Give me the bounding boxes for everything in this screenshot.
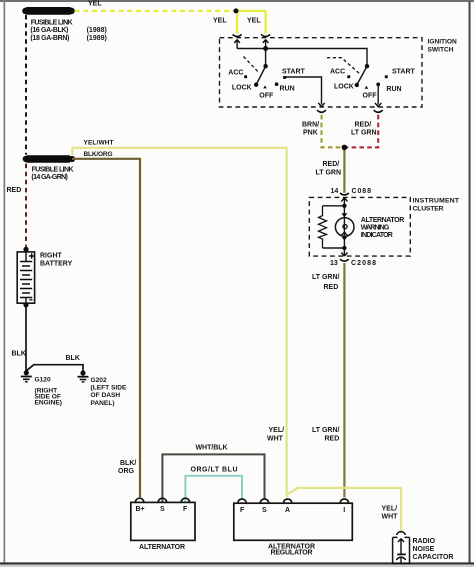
fusible link FL2 (14 GA-GRN) (23, 155, 75, 163)
label INSTRUMENT CLUSTER (413, 197, 460, 212)
svg-text:LT GRN: LT GRN (316, 169, 342, 176)
wire bus inside ignition switch (237, 49, 367, 67)
svg-text:G202: G202 (91, 377, 107, 384)
node yellow junction (234, 8, 239, 13)
label RED/LT GRN (red) (351, 121, 377, 136)
node BRN/PNK + RED/LT GRN junction (342, 145, 348, 151)
label BLK/ORG (near B+) (118, 460, 136, 475)
svg-text:C2088: C2088 (351, 260, 376, 267)
svg-text:LOCK: LOCK (334, 83, 354, 90)
switch SW1 left (wiper + contacts) (244, 57, 287, 89)
svg-text:ACC: ACC (228, 69, 243, 76)
svg-text:CLUSTER: CLUSTER (413, 205, 444, 212)
wire resistor bottom (323, 247, 345, 249)
connector arrow into cluster (341, 198, 347, 206)
ground G120 (21, 370, 32, 382)
label ALTERNATOR WARNING INDICATOR (361, 217, 405, 239)
connector 13 C2088 (330, 259, 376, 267)
label RIGHT BATTERY (40, 253, 73, 268)
label FUSIBLE LINK 1 (30, 20, 106, 42)
svg-text:FUSIBLE LINK: FUSIBLE LINK (32, 167, 74, 174)
svg-text:INDICATOR: INDICATOR (361, 232, 393, 239)
svg-text:F: F (183, 506, 188, 513)
svg-text:LT GRN: LT GRN (351, 130, 377, 137)
label G202 (LEFT SIDE OF DASH PANEL) (91, 377, 128, 407)
resistor (cluster shunt) (319, 206, 327, 248)
label G120 (RIGHT SIDE OF ENGINE) (35, 377, 62, 407)
connector exit left (BRN/PNK) (317, 103, 326, 112)
indicator lamp (alternator warning) (335, 206, 354, 248)
label RADIO NOISE CAPACITOR (413, 538, 454, 561)
wire ORG/LT BLU alternator F to regulator F (185, 476, 242, 502)
svg-text:INSTRUMENT: INSTRUMENT (413, 197, 460, 204)
svg-text:YEL: YEL (247, 18, 261, 25)
svg-text:RED: RED (7, 187, 22, 194)
fusible link FL1 (16 GA-BLK / 18 GA-BRN) (22, 7, 75, 15)
svg-text:BLK: BLK (12, 350, 26, 357)
labels SW1 positions (228, 69, 305, 100)
wire SW2 RUN contact to exit (377, 84, 379, 104)
frame bottom border (0, 562, 474, 564)
svg-text:START: START (392, 68, 416, 75)
connector arrow out of cluster (341, 248, 347, 256)
node battery - terminal (23, 302, 28, 307)
svg-text:NOISE: NOISE (413, 546, 435, 553)
svg-text:(LEFT SIDE: (LEFT SIDE (91, 385, 128, 392)
svg-text:LT GRN/: LT GRN/ (312, 427, 340, 434)
svg-text:RED/: RED/ (323, 161, 340, 168)
node cluster bottom junction (342, 246, 346, 250)
wire SW1 START contact to exit (286, 77, 322, 105)
svg-text:(18 GA-BRN): (18 GA-BRN) (30, 35, 69, 42)
svg-text:WHT/BLK: WHT/BLK (196, 445, 228, 452)
svg-text:(1989): (1989) (87, 35, 107, 42)
wire WHT/BLK alternator S to regulator S (162, 454, 264, 501)
svg-text:B+: B+ (136, 506, 145, 513)
wire BLK dashed (FL1 to FL2) (25, 15, 27, 155)
svg-text:RADIO: RADIO (413, 538, 436, 545)
wire left feed to wiper (265, 49, 267, 67)
label LT GRN/RED (upper) (312, 274, 340, 291)
labels SW2 positions (330, 68, 416, 99)
svg-text:ENGINE): ENGINE) (35, 400, 62, 407)
svg-text:13: 13 (330, 260, 338, 267)
svg-text:PANEL): PANEL) (91, 400, 115, 407)
svg-text:FUSIBLE LINK: FUSIBLE LINK (31, 20, 73, 27)
wire BLK battery to G120 (25, 305, 27, 371)
svg-text:RED: RED (325, 435, 340, 442)
svg-text:I: I (343, 507, 345, 514)
wire RED/LT GRN solid to cluster (343, 147, 345, 192)
svg-text:BRN/: BRN/ (302, 121, 319, 128)
connector exit right (RED/LT GRN) (374, 103, 383, 112)
wire YEL/WHT branch to radio capacitor (287, 488, 401, 532)
svg-text:C088: C088 (352, 188, 372, 195)
svg-text:(16 GA-BLK): (16 GA-BLK) (30, 27, 68, 34)
svg-text:ALTERNATOR: ALTERNATOR (139, 544, 185, 551)
svg-text:OFF: OFF (259, 93, 274, 100)
wire RED/LT GRN dashed (346, 115, 378, 148)
wire to resistor top (323, 205, 345, 207)
frame left border (4, 0, 6, 565)
svg-text:WARNING: WARNING (361, 224, 390, 231)
svg-text:(1988): (1988) (87, 27, 107, 34)
node bus junction (263, 46, 268, 51)
svg-text:YEL: YEL (88, 1, 102, 8)
svg-text:ORG/LT BLU: ORG/LT BLU (191, 467, 238, 474)
svg-text:BATTERY: BATTERY (40, 261, 73, 268)
wire RED dashed (FL2 to battery) (25, 164, 27, 247)
wire LT GRN/RED to regulator I (343, 263, 345, 497)
battery RIGHT BATTERY (17, 252, 34, 303)
svg-text:CAPACITOR: CAPACITOR (413, 554, 454, 561)
label YEL/WHT (capacitor feed) (382, 505, 399, 520)
connector entry right (ignition) (261, 34, 270, 48)
svg-text:WHT: WHT (267, 435, 284, 442)
svg-text:YEL/: YEL/ (269, 427, 285, 434)
frame top border (0, 0, 474, 2)
ground G202 (78, 370, 89, 382)
svg-text:S: S (160, 506, 165, 513)
svg-text:RIGHT: RIGHT (40, 253, 63, 260)
svg-text:OFF: OFF (363, 93, 378, 100)
radio noise capacitor (393, 532, 410, 564)
label RED/LT GRN (black) (316, 161, 342, 176)
svg-text:YEL/WHT: YEL/WHT (84, 140, 114, 147)
svg-text:BLK/ORG: BLK/ORG (84, 151, 113, 158)
wire BRN/PNK dashed (322, 115, 344, 148)
frame right border (469, 2, 471, 565)
svg-text:OF DASH: OF DASH (91, 392, 121, 399)
svg-text:WHT: WHT (382, 514, 399, 521)
svg-text:LOCK: LOCK (232, 85, 252, 92)
labels alternator pins B+ S F (136, 506, 189, 513)
svg-text:RED/: RED/ (355, 121, 372, 128)
wire BLK/ORG to B+ (72, 159, 140, 498)
svg-text:G120: G120 (35, 377, 51, 384)
wire YEL solid into ignition switch (236, 11, 266, 34)
svg-text:(14 GA-GRN): (14 GA-GRN) (31, 174, 68, 181)
ignition switch box (220, 38, 423, 107)
alternator regulator box (234, 499, 352, 540)
svg-text:START: START (282, 69, 306, 76)
label YEL/WHT (vertical, near A) (267, 427, 284, 442)
svg-text:F: F (240, 507, 245, 514)
svg-text:YEL: YEL (213, 18, 227, 25)
svg-text:IGNITION: IGNITION (428, 38, 458, 45)
wire YEL dashed from FL1 (75, 10, 235, 12)
wire YEL/WHT from FL2 to A terminal (72, 148, 287, 498)
svg-text:BLK: BLK (66, 355, 80, 362)
node cluster top junction (342, 204, 346, 208)
labels regulator pins F S A I (240, 507, 345, 514)
svg-text:S: S (262, 507, 267, 514)
svg-text:ACC: ACC (330, 69, 345, 76)
svg-text:PNK: PNK (303, 130, 318, 137)
svg-text:A: A (285, 507, 290, 514)
node battery + terminal (23, 247, 28, 252)
svg-text:RUN: RUN (386, 86, 401, 93)
svg-text:RUN: RUN (280, 86, 295, 93)
svg-text:14: 14 (331, 188, 339, 195)
svg-text:LT GRN/: LT GRN/ (312, 274, 340, 281)
svg-text:ALTERNATOR: ALTERNATOR (361, 217, 405, 224)
label IGNITION SWITCH (428, 38, 458, 53)
svg-text:RED: RED (324, 284, 339, 291)
label FUSIBLE LINK 2 (31, 167, 73, 182)
switch SW2 right (wiper + contacts) (327, 58, 388, 89)
alternator box (131, 498, 195, 540)
label LT GRN/RED (lower) (312, 427, 340, 442)
svg-text:REGULATOR: REGULATOR (271, 550, 313, 557)
svg-text:SWITCH: SWITCH (428, 46, 454, 53)
svg-text:ORG: ORG (118, 468, 135, 475)
svg-text:YEL/: YEL/ (382, 505, 398, 512)
wire BLK branch to G202 (26, 365, 83, 372)
svg-text:BLK/: BLK/ (120, 460, 136, 467)
label ALTERNATOR REGULATOR (268, 544, 315, 557)
connector 14 C088 (331, 188, 372, 195)
label BRN/PNK (302, 121, 319, 136)
connector entry left (ignition) (233, 34, 242, 48)
instrument cluster box (309, 197, 410, 256)
